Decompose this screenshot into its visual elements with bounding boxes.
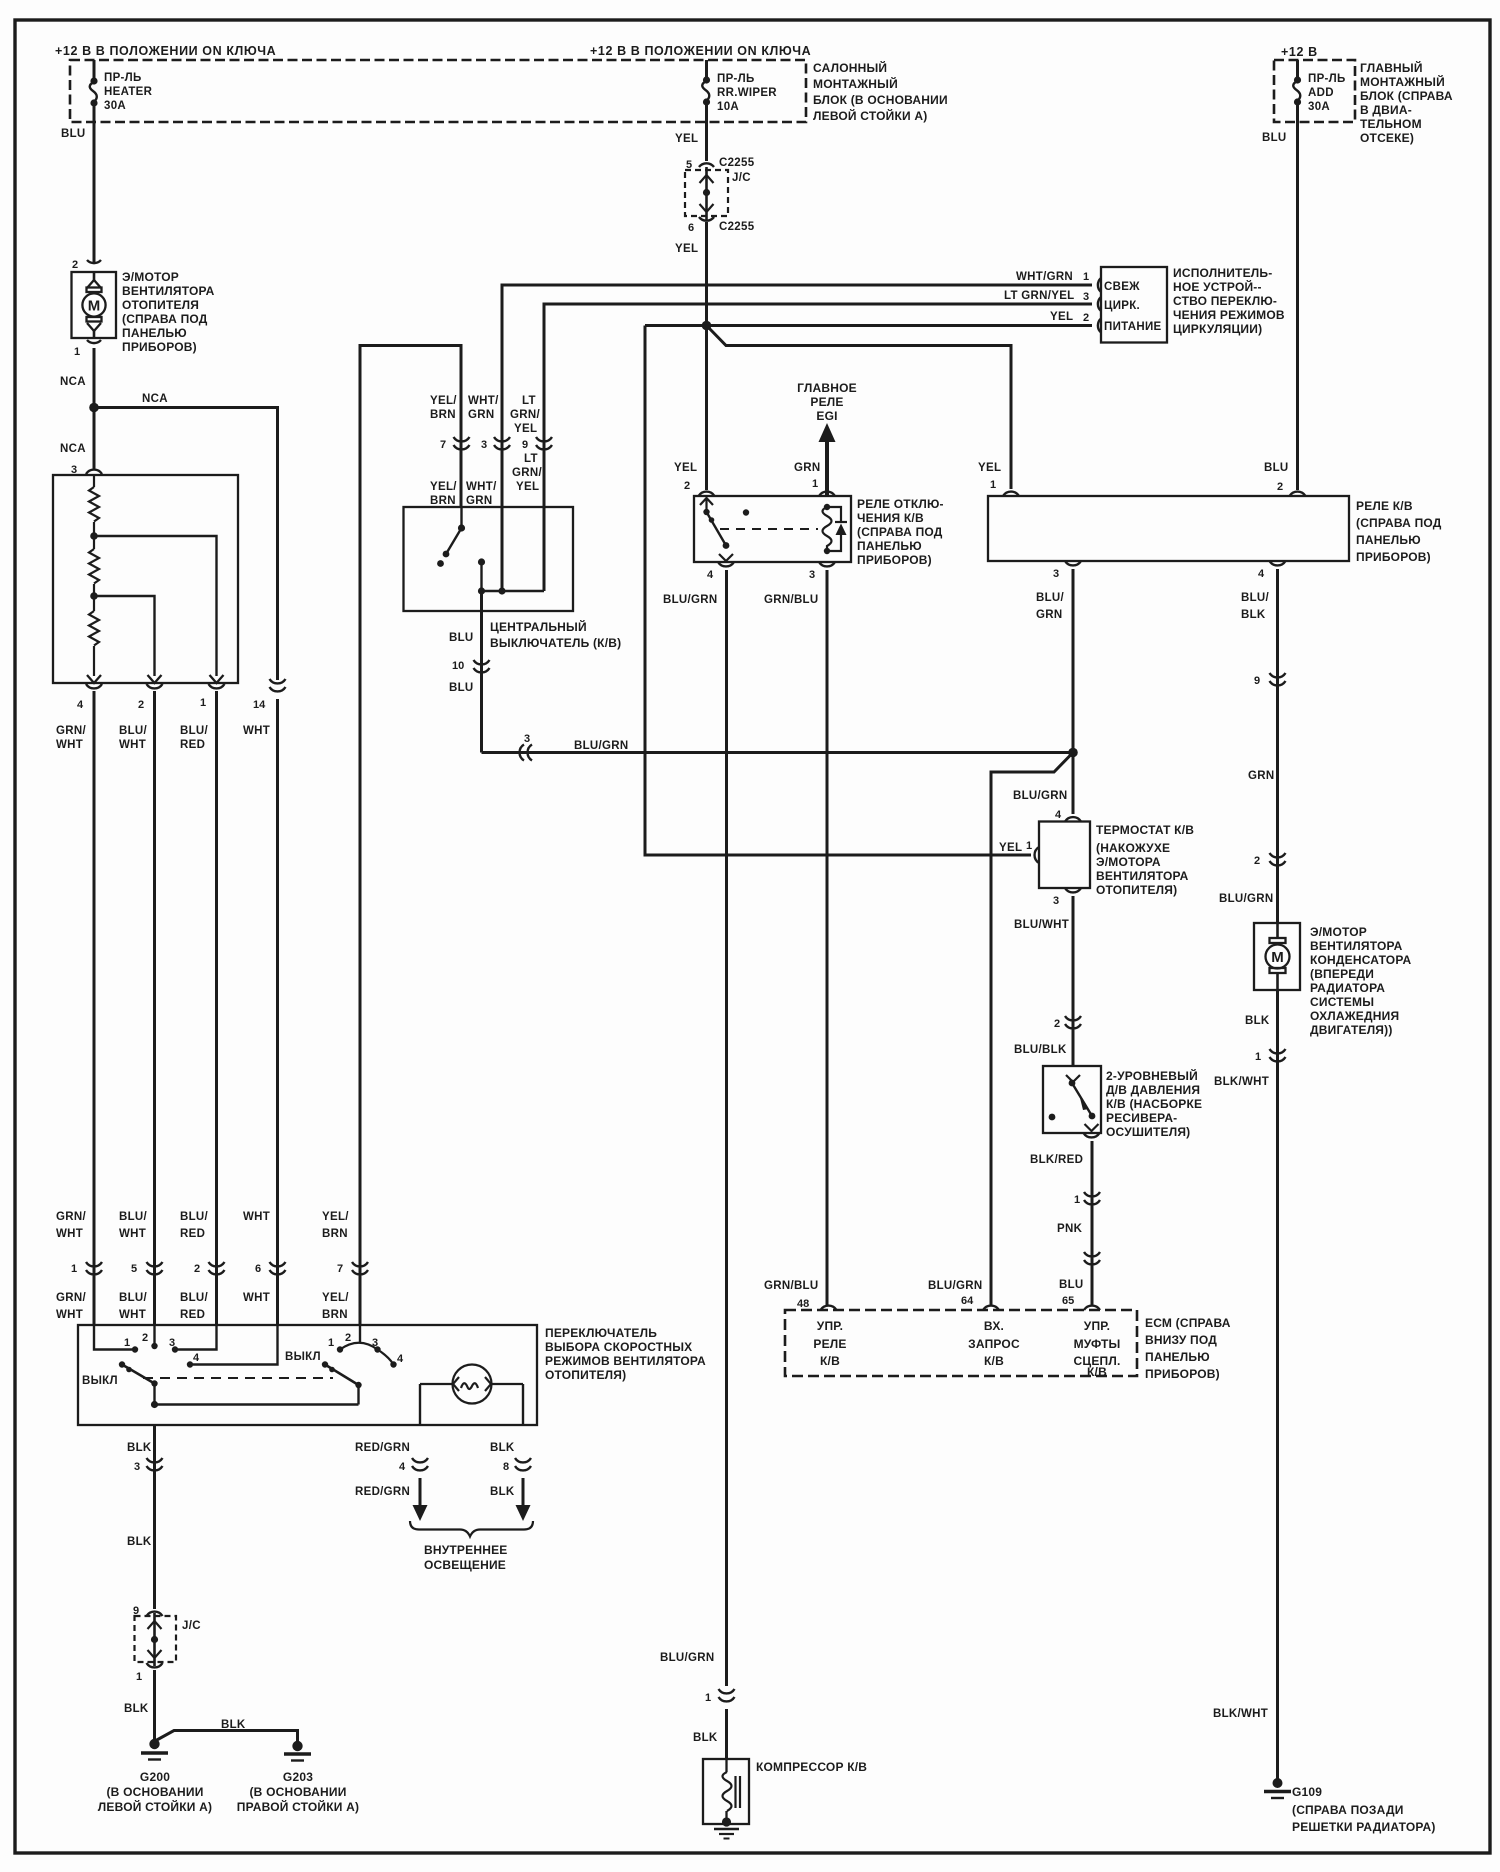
relay cutoff coil [823, 507, 832, 551]
svg-text:ЦИРКУЛЯЦИИ): ЦИРКУЛЯЦИИ) [1173, 322, 1262, 336]
svg-text:1: 1 [1074, 1194, 1080, 1206]
wire NCA to resistor pack pin 3 [93, 408, 96, 470]
svg-text:BLU/GRN: BLU/GRN [574, 740, 629, 752]
svg-text:10А: 10А [717, 101, 739, 113]
svg-text:(В ОСНОВАНИИ: (В ОСНОВАНИИ [249, 1785, 346, 1799]
fan switch dashed mechanical link [143, 1377, 333, 1379]
svg-text:МОНТАЖНЫЙ: МОНТАЖНЫЙ [813, 76, 898, 91]
svg-text:УПР.: УПР. [1084, 1319, 1110, 1333]
svg-text:СИСТЕМЫ: СИСТЕМЫ [1310, 995, 1374, 1009]
wire pole junction [482, 590, 545, 592]
wire BLU/BLK relay K/V pin4 down [1276, 569, 1279, 923]
svg-text:Д/В ДАВЛЕНИЯ: Д/В ДАВЛЕНИЯ [1106, 1083, 1200, 1097]
svg-text:LT: LT [522, 395, 536, 407]
svg-text:МОНТАЖНЫЙ: МОНТАЖНЫЙ [1360, 74, 1445, 89]
svg-text:YEL: YEL [675, 133, 698, 145]
svg-text:BRN: BRN [322, 1228, 348, 1240]
svg-text:BRN: BRN [430, 409, 456, 421]
svg-text:УПР.: УПР. [817, 1319, 843, 1333]
svg-text:EGI: EGI [816, 409, 837, 423]
svg-text:К/В: К/В [820, 1354, 840, 1368]
connector 3 BLU/GRN [520, 745, 532, 761]
wire BLK/RED pressure switch down [1091, 1141, 1094, 1305]
svg-text:GRN/BLU: GRN/BLU [764, 1280, 819, 1292]
svg-text:YEL: YEL [516, 481, 539, 493]
arrow down inside J/C [700, 204, 714, 212]
svg-text:YEL: YEL [978, 462, 1001, 474]
svg-text:(СПРАВА ПОД: (СПРАВА ПОД [122, 312, 208, 326]
svg-text:PNK: PNK [1057, 1223, 1083, 1235]
svg-text:ПР-ЛЬ: ПР-ЛЬ [1308, 73, 1346, 85]
svg-text:(НАКОЖУХЕ: (НАКОЖУХЕ [1096, 841, 1170, 855]
svg-text:ГЛАВНЫЙ: ГЛАВНЫЙ [1360, 60, 1423, 75]
svg-text:2-УРОВНЕВЫЙ: 2-УРОВНЕВЫЙ [1106, 1068, 1198, 1083]
connector 1 compressor [719, 1689, 735, 1701]
svg-text:ЧЕНИЯ К/В: ЧЕНИЯ К/В [857, 511, 924, 525]
connector 2 BLU/BLK [1065, 1016, 1081, 1028]
connector pin 3 relay K/V [1065, 561, 1081, 565]
central switch lever [446, 528, 462, 554]
svg-text:К/В: К/В [984, 1354, 1004, 1368]
svg-text:2: 2 [72, 259, 78, 271]
connector pin 3 resistor pack [86, 470, 102, 474]
svg-text:BLU/: BLU/ [119, 1292, 148, 1304]
svg-text:GRN: GRN [1248, 770, 1274, 782]
wire BLK condenser fan down [1276, 990, 1279, 1780]
svg-text:GRN/: GRN/ [56, 1211, 86, 1223]
arrow up inside J/C [700, 175, 714, 183]
ECM dashed box [785, 1310, 1137, 1376]
svg-text:GRN: GRN [468, 409, 494, 421]
connector PNK-BLU [1084, 1252, 1100, 1264]
svg-text:BLK: BLK [693, 1732, 718, 1744]
connector 1 J/C lower [147, 1663, 163, 1667]
wire YEL/BRN loop top [360, 346, 461, 1326]
svg-text:BLU: BLU [449, 682, 474, 694]
svg-text:BLU/BLK: BLU/BLK [1014, 1044, 1067, 1056]
wire BLU/GRN horizontal to node B [482, 751, 1074, 754]
svg-text:GRN/BLU: GRN/BLU [764, 594, 819, 606]
actuator pin 1 [1098, 278, 1101, 292]
svg-text:5: 5 [131, 1263, 137, 1275]
connector pin 2 [147, 684, 163, 688]
svg-text:LT: LT [524, 453, 538, 465]
svg-text:САЛОННЫЙ: САЛОННЫЙ [813, 60, 887, 75]
svg-text:4: 4 [399, 1461, 406, 1473]
svg-text:10: 10 [452, 660, 464, 672]
svg-text:ВХ.: ВХ. [984, 1319, 1004, 1333]
heater fan motor connector pin 2 [87, 260, 101, 263]
svg-text:ПЕРЕКЛЮЧАТЕЛЬ: ПЕРЕКЛЮЧАТЕЛЬ [545, 1326, 657, 1340]
svg-text:ОХЛАЖЕДНИЯ: ОХЛАЖЕДНИЯ [1310, 1009, 1399, 1023]
fan switch contact 1 left [94, 1325, 132, 1350]
arrow pin 4 [87, 675, 101, 683]
svg-text:BLK: BLK [1245, 1015, 1270, 1027]
ground G203 [292, 1741, 302, 1751]
svg-text:ОСУШИТЕЛЯ): ОСУШИТЕЛЯ) [1106, 1125, 1190, 1139]
connector 6 WHT [270, 1262, 286, 1274]
svg-text:РЕЛЕ: РЕЛЕ [810, 395, 843, 409]
svg-text:РЕЛЕ: РЕЛЕ [813, 1337, 846, 1351]
svg-text:YEL: YEL [674, 462, 697, 474]
svg-text:WHT: WHT [56, 739, 83, 751]
svg-text:WHT: WHT [243, 725, 270, 737]
svg-text:4: 4 [193, 1352, 200, 1364]
wire BLK to ground G200 [153, 1670, 156, 1740]
illumination lamp [420, 1365, 523, 1404]
svg-text:30А: 30А [104, 100, 126, 112]
wire YEL down to thermostat [645, 326, 1031, 856]
svg-text:(ВПЕРЕДИ: (ВПЕРЕДИ [1310, 967, 1374, 981]
svg-text:ПАНЕЛЬЮ: ПАНЕЛЬЮ [1145, 1350, 1210, 1364]
svg-text:НОЕ УСТРОЙ--: НОЕ УСТРОЙ-- [1173, 279, 1262, 294]
fan speed switch box [78, 1325, 537, 1425]
fan switch contact 4 left [193, 1325, 278, 1365]
svg-text:RED: RED [180, 1309, 205, 1321]
A/C cutoff relay box [694, 496, 851, 562]
node resistor tap 2 [90, 592, 98, 600]
svg-text:ВЕНТИЛЯТОРА: ВЕНТИЛЯТОРА [1096, 869, 1189, 883]
svg-text:К/В (НАСБОРКЕ: К/В (НАСБОРКЕ [1106, 1097, 1202, 1111]
actuator pin 3 [1098, 297, 1101, 311]
svg-text:ОТСЕКЕ): ОТСЕКЕ) [1360, 131, 1414, 145]
svg-text:BLU/: BLU/ [1036, 592, 1065, 604]
svg-text:4: 4 [397, 1353, 404, 1365]
wire tap1 to pin 1 [94, 536, 217, 676]
svg-text:YEL/: YEL/ [430, 395, 457, 407]
wire through J/C lower [153, 1613, 156, 1666]
svg-text:ОТОПИТЕЛЯ): ОТОПИТЕЛЯ) [1096, 883, 1177, 897]
compressor coil [725, 1759, 727, 1772]
svg-text:ВНИЗУ ПОД: ВНИЗУ ПОД [1145, 1333, 1217, 1347]
svg-text:YEL/: YEL/ [430, 481, 457, 493]
wire YEL from C2255 down to node A [705, 222, 708, 326]
svg-text:СВЕЖ: СВЕЖ [1104, 281, 1140, 293]
svg-text:YEL: YEL [514, 423, 537, 435]
svg-text:(СПРАВА ПОД: (СПРАВА ПОД [857, 525, 943, 539]
wire NCA branch to WHT line [94, 408, 278, 681]
svg-text:ВЫБОРА СКОРОСТНЫХ: ВЫБОРА СКОРОСТНЫХ [545, 1340, 692, 1354]
svg-text:G200: G200 [140, 1770, 170, 1784]
connector pin 3 relay cutoff [819, 562, 835, 566]
svg-text:1: 1 [705, 1692, 711, 1704]
svg-text:+12 В: +12 В [1281, 45, 1318, 59]
connector 14 WHT [270, 679, 286, 691]
wire WHT/GRN from fresh-air actuator [502, 285, 1092, 591]
svg-text:1: 1 [990, 479, 996, 491]
svg-text:NCA: NCA [142, 393, 168, 405]
svg-text:2: 2 [194, 1263, 200, 1275]
ground G200 [149, 1739, 159, 1749]
svg-text:M: M [1271, 949, 1284, 966]
svg-text:1: 1 [812, 478, 818, 490]
node A junction YEL [702, 321, 712, 331]
svg-text:РЕЖИМОВ ВЕНТИЛЯТОРА: РЕЖИМОВ ВЕНТИЛЯТОРА [545, 1354, 706, 1368]
svg-text:ЛЕВОЙ СТОЙКИ А): ЛЕВОЙ СТОЙКИ А) [813, 108, 927, 123]
svg-text:RED: RED [180, 739, 205, 751]
svg-text:2: 2 [1277, 481, 1283, 493]
svg-text:Э/МОТОР: Э/МОТОР [122, 270, 179, 284]
svg-text:NCA: NCA [60, 376, 86, 388]
svg-text:4: 4 [77, 699, 84, 711]
svg-text:1: 1 [71, 1263, 77, 1275]
svg-text:GRN/: GRN/ [512, 467, 542, 479]
svg-text:M: M [88, 298, 101, 315]
fan switch pole right [357, 1385, 359, 1405]
svg-text:1: 1 [1255, 1051, 1261, 1063]
svg-text:GRN/: GRN/ [56, 1292, 86, 1304]
connector 7 YEL/BRN [352, 1262, 368, 1274]
svg-text:7: 7 [337, 1263, 343, 1275]
connector 1 GRN/WHT [86, 1262, 102, 1274]
fan switch contact 3 left [178, 1325, 217, 1350]
svg-text:HEATER: HEATER [104, 86, 153, 98]
connector pin 4 relay K/V [1270, 561, 1286, 565]
svg-text:BLU: BLU [1262, 132, 1287, 144]
connector 3 BLK [147, 1458, 163, 1470]
svg-text:ТЕЛЬНОМ: ТЕЛЬНОМ [1360, 117, 1422, 131]
svg-text:WHT: WHT [56, 1309, 83, 1321]
svg-text:GRN/: GRN/ [56, 725, 86, 737]
A/C relay K/V box [988, 496, 1349, 561]
svg-text:WHT: WHT [243, 1292, 270, 1304]
svg-text:BLK: BLK [127, 1536, 152, 1548]
svg-text:14: 14 [253, 699, 266, 711]
connector pin 2 relay cutoff [699, 492, 715, 496]
svg-text:3: 3 [481, 439, 487, 451]
svg-text:RED: RED [180, 1228, 205, 1240]
fan switch lever left [119, 1361, 125, 1367]
ground compressor [722, 1817, 731, 1826]
svg-text:БЛОК (СПРАВА: БЛОК (СПРАВА [1360, 89, 1453, 103]
svg-text:30А: 30А [1308, 101, 1330, 113]
svg-text:WHT/: WHT/ [468, 395, 499, 407]
heater fan motor M1 [72, 272, 117, 338]
connector pin 2 relay K/V [1290, 492, 1306, 496]
wire branch to ECM pin 64 [991, 753, 1073, 1306]
svg-text:BLU/GRN: BLU/GRN [1219, 893, 1274, 905]
resistor R1 [89, 475, 99, 533]
connector 3 central switch [494, 437, 510, 449]
svg-text:Э/МОТОРА: Э/МОТОРА [1096, 855, 1161, 869]
svg-text:3: 3 [1083, 291, 1089, 303]
central switch K/V box [404, 507, 574, 611]
wire BLU below central switch [480, 591, 483, 753]
pressure switch internals [1066, 1075, 1080, 1082]
svg-text:ЦЕНТРАЛЬНЫЙ: ЦЕНТРАЛЬНЫЙ [490, 619, 587, 634]
wire through J/C [705, 167, 708, 220]
connector 9 central switch [536, 437, 552, 449]
connector 9 BLU/BLK [1270, 673, 1286, 685]
svg-text:BLK: BLK [490, 1486, 515, 1498]
svg-text:C2255: C2255 [719, 221, 755, 233]
svg-text:КОНДЕНСАТОРА: КОНДЕНСАТОРА [1310, 953, 1411, 967]
svg-text:ПРИБОРОВ): ПРИБОРОВ) [122, 340, 197, 354]
svg-text:1: 1 [328, 1337, 334, 1349]
svg-text:ПРИБОРОВ): ПРИБОРОВ) [1145, 1367, 1220, 1381]
relay cutoff dashed link [720, 528, 818, 530]
svg-text:1: 1 [74, 346, 80, 358]
fan switch pole left [153, 1384, 155, 1405]
main relay EGI arrow [825, 438, 829, 496]
dual pressure switch box [1043, 1066, 1101, 1133]
svg-text:ИСПОЛНИТЕЛЬ-: ИСПОЛНИТЕЛЬ- [1173, 266, 1272, 280]
svg-text:ВЫКЛ: ВЫКЛ [82, 1375, 118, 1387]
svg-text:2: 2 [138, 699, 144, 711]
svg-text:2: 2 [142, 1332, 148, 1344]
svg-text:6: 6 [255, 1263, 261, 1275]
fresh air actuator box [1101, 267, 1167, 343]
svg-text:6: 6 [688, 222, 694, 234]
svg-text:ПИТАНИЕ: ПИТАНИЕ [1104, 321, 1162, 333]
svg-text:+12 В В ПОЛОЖЕНИИ ON КЛЮЧА: +12 В В ПОЛОЖЕНИИ ON КЛЮЧА [590, 44, 811, 58]
svg-text:БЛОК (В ОСНОВАНИИ: БЛОК (В ОСНОВАНИИ [813, 93, 948, 107]
svg-text:2: 2 [345, 1332, 351, 1344]
relay cutoff aux contact dot [743, 509, 749, 515]
svg-text:3: 3 [809, 569, 815, 581]
svg-text:ПАНЕЛЬЮ: ПАНЕЛЬЮ [122, 326, 187, 340]
svg-text:LT GRN/YEL: LT GRN/YEL [1004, 290, 1075, 302]
svg-text:3: 3 [524, 733, 530, 745]
svg-text:1: 1 [124, 1337, 130, 1349]
central switch pivot [460, 507, 462, 528]
connector 1 BLK/RED [1084, 1192, 1100, 1204]
svg-text:J/C: J/C [182, 1620, 201, 1632]
svg-text:ПР-ЛЬ: ПР-ЛЬ [717, 73, 755, 85]
wire YEL node A to relay cutoff pin 2 [705, 326, 708, 491]
svg-text:WHT/: WHT/ [466, 481, 497, 493]
svg-text:GRN: GRN [466, 495, 492, 507]
wire BLU from fuse HEATER to heater fan motor [93, 122, 96, 262]
wire YEL from fuse RR.WIPER to junction C2255 [705, 122, 708, 161]
svg-text:BLU/GRN: BLU/GRN [1013, 790, 1068, 802]
svg-text:ЦИРК.: ЦИРК. [1104, 300, 1140, 312]
svg-text:ЗАПРОС: ЗАПРОС [968, 1337, 1020, 1351]
wire LT GRN/YEL from actuator [544, 304, 1092, 591]
node inside J/C [703, 189, 710, 196]
svg-text:ОСВЕЩЕНИЕ: ОСВЕЩЕНИЕ [424, 1558, 506, 1572]
svg-text:4: 4 [1258, 568, 1265, 580]
svg-text:Э/МОТОР: Э/МОТОР [1310, 925, 1367, 939]
svg-text:WHT: WHT [119, 1228, 146, 1240]
svg-text:РАДИАТОРА: РАДИАТОРА [1310, 981, 1385, 995]
svg-text:2: 2 [1054, 1018, 1060, 1030]
arrow up inside J/C lower [148, 1621, 162, 1629]
node inside J/C lower [151, 1636, 158, 1643]
svg-text:3: 3 [372, 1337, 378, 1349]
svg-text:(В ОСНОВАНИИ: (В ОСНОВАНИИ [106, 1785, 203, 1799]
lamp lead BLK [522, 1384, 524, 1425]
wire GRN/BLU relay cutoff pin3 to ECM [826, 570, 829, 1305]
node NCA junction [89, 403, 99, 413]
svg-text:G109: G109 [1292, 1785, 1322, 1799]
actuator pin 2 [1098, 319, 1101, 333]
svg-text:ВНУТРЕННЕЕ: ВНУТРЕННЕЕ [424, 1543, 507, 1557]
svg-text:BLK: BLK [490, 1442, 515, 1454]
connector pin 1 [209, 684, 225, 688]
svg-text:WHT: WHT [119, 1309, 146, 1321]
resistor pack box [53, 475, 238, 683]
svg-text:C2255: C2255 [719, 157, 755, 169]
svg-text:BLU/: BLU/ [180, 1211, 209, 1223]
resistor R2 [89, 536, 99, 593]
fan switch pole link wire [155, 1403, 359, 1405]
svg-text:9: 9 [1254, 675, 1260, 687]
svg-text:КОМПРЕССОР К/В: КОМПРЕССОР К/В [756, 1760, 867, 1774]
wire GRN/WHT resistor pin4 down [93, 691, 96, 1325]
svg-text:BLK/WHT: BLK/WHT [1214, 1076, 1269, 1088]
fan switch rotor arc right [340, 1343, 394, 1365]
svg-text:BRN: BRN [430, 495, 456, 507]
svg-text:BLU: BLU [1264, 462, 1289, 474]
thermostat K/V box [1039, 822, 1090, 889]
svg-text:ВЕНТИЛЯТОРА: ВЕНТИЛЯТОРА [122, 284, 215, 298]
wire BLU/WHT thermostat to pressure switch [1072, 896, 1075, 1066]
svg-text:К/В: К/В [1087, 1365, 1107, 1379]
svg-text:8: 8 [503, 1461, 509, 1473]
svg-text:BLU/: BLU/ [1241, 592, 1270, 604]
svg-text:ПАНЕЛЬЮ: ПАНЕЛЬЮ [857, 539, 922, 553]
svg-text:ПРИБОРОВ): ПРИБОРОВ) [857, 553, 932, 567]
svg-text:BLU: BLU [61, 128, 86, 140]
wire YEL actuator to corner [645, 324, 1092, 327]
junction connector J/C dashed box [685, 170, 728, 216]
svg-text:BLU: BLU [1059, 1279, 1084, 1291]
wire NCA from motor to node [93, 348, 96, 403]
svg-text:ГЛАВНОЕ: ГЛАВНОЕ [797, 381, 857, 395]
node resistor tap 1 [90, 532, 98, 540]
svg-text:СТВО ПЕРЕКЛЮ-: СТВО ПЕРЕКЛЮ- [1173, 294, 1277, 308]
svg-text:BLU/GRN: BLU/GRN [663, 594, 718, 606]
svg-text:64: 64 [961, 1295, 974, 1307]
fuse RR.WIPER 10A [702, 60, 710, 122]
wire BLU/GRN relay cutoff pin4 to compressor [725, 570, 728, 1686]
arrow pin 2 [148, 675, 162, 683]
svg-text:ОТОПИТЕЛЯ: ОТОПИТЕЛЯ [122, 298, 199, 312]
heater fan motor connector pin 1 [87, 340, 101, 343]
connector 1 BLK [1270, 1049, 1286, 1061]
svg-text:BLU/: BLU/ [180, 1292, 209, 1304]
wire BLK branch to G203 [155, 1731, 298, 1743]
svg-text:ДВИГАТЕЛЯ)): ДВИГАТЕЛЯ)) [1310, 1023, 1393, 1037]
svg-text:3: 3 [1053, 895, 1059, 907]
svg-text:WHT: WHT [56, 1228, 83, 1240]
svg-text:GRN/: GRN/ [510, 409, 540, 421]
ground G109 [1273, 1778, 1283, 1788]
svg-text:3: 3 [1053, 568, 1059, 580]
central switch contact [437, 560, 444, 567]
wire BLK compressor [725, 1709, 728, 1759]
svg-text:(СПРАВА ПОД: (СПРАВА ПОД [1356, 516, 1442, 530]
svg-text:ПАНЕЛЬЮ: ПАНЕЛЬЮ [1356, 533, 1421, 547]
wire YEL jog to relay K/V pin 1 [707, 326, 1012, 490]
salon fuse block dashed box [70, 60, 806, 122]
svg-text:RED/GRN: RED/GRN [355, 1486, 410, 1498]
svg-text:BLK/RED: BLK/RED [1030, 1154, 1083, 1166]
svg-text:ЕСМ (СПРАВА: ЕСМ (СПРАВА [1145, 1316, 1231, 1330]
svg-text:ВЕНТИЛЯТОРА: ВЕНТИЛЯТОРА [1310, 939, 1403, 953]
connector 6 C2255 [699, 217, 714, 221]
connector 2 right column [1270, 853, 1286, 865]
svg-text:2: 2 [1083, 312, 1089, 324]
svg-text:BLU/: BLU/ [119, 725, 148, 737]
svg-text:ПРАВОЙ СТОЙКИ А): ПРАВОЙ СТОЙКИ А) [237, 1799, 359, 1814]
connector 9 J/C lower [147, 1612, 163, 1616]
wire BLU from fuse ADD down to relay K/V pin 2 [1296, 122, 1299, 490]
svg-text:YEL/: YEL/ [322, 1211, 349, 1223]
wire tap2 to pin 2 [94, 596, 155, 676]
main fuse block dashed box (right) [1274, 60, 1355, 122]
